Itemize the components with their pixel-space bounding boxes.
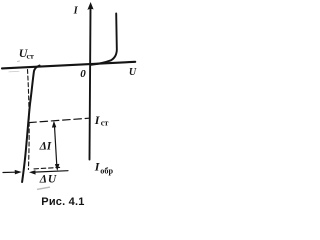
svg-text:ΔU: ΔU [39,173,58,185]
svg-text:0: 0 [80,68,86,80]
svg-text:ст: ст [101,119,109,128]
svg-text:обр: обр [100,166,113,175]
svg-text:ΔI: ΔI [39,140,52,152]
svg-text:Рис. 4.1: Рис. 4.1 [41,196,84,208]
svg-text:U: U [129,67,137,78]
svg-text:ст: ст [27,52,34,61]
svg-text:I: I [73,6,79,17]
